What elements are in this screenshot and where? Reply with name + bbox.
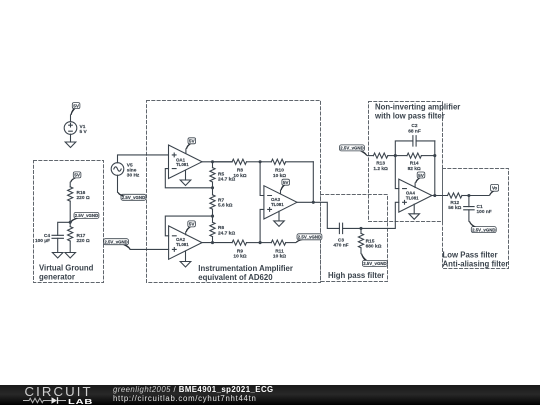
svg-text:680 kΩ: 680 kΩ xyxy=(366,244,382,250)
capacitor C2 xyxy=(408,123,435,146)
node OA3 out / R10 xyxy=(312,201,315,204)
svg-text:Vo: Vo xyxy=(492,186,498,191)
net label 2.5V_vGND (R15) xyxy=(361,254,387,267)
section box: High pass filter xyxy=(321,195,388,282)
svg-text:R6: R6 xyxy=(218,225,224,231)
svg-text:generator: generator xyxy=(39,273,75,282)
ground (C4) xyxy=(52,253,63,259)
wire OA4 output xyxy=(432,195,448,197)
wire OA1 output xyxy=(202,161,232,163)
svg-text:R7: R7 xyxy=(218,197,224,203)
net label 2.5V_vGND (C1) xyxy=(469,221,496,232)
logo wire/diode xyxy=(22,396,68,405)
svg-text:Anti-aliasing filter: Anti-aliasing filter xyxy=(443,259,509,268)
wire OA2 output xyxy=(202,242,232,244)
resistor R15 xyxy=(358,228,381,253)
capacitor C3 xyxy=(333,223,361,248)
svg-text:2.5V_vGND: 2.5V_vGND xyxy=(298,235,321,240)
wire to C2 xyxy=(395,141,413,156)
svg-text:100 µF: 100 µF xyxy=(35,238,50,244)
op-amp OA1 xyxy=(169,145,203,179)
svg-text:C3: C3 xyxy=(338,237,344,243)
net label 2.5V_vGND (OA2 +) xyxy=(104,239,131,250)
wire V1 bottom xyxy=(70,134,72,142)
voltage source V1 xyxy=(64,122,87,135)
svg-text:TL081: TL081 xyxy=(406,195,419,200)
net label 5V (OA3) xyxy=(281,179,290,194)
resistor R6 xyxy=(210,216,235,243)
node R5/R7 xyxy=(211,186,214,189)
capacitor C4 xyxy=(35,233,63,253)
svg-text:Non-inverting amplifier: Non-inverting amplifier xyxy=(375,102,460,111)
svg-text:5 V: 5 V xyxy=(80,129,88,135)
resistor R5 xyxy=(210,162,235,188)
svg-text:10 kΩ: 10 kΩ xyxy=(233,254,246,260)
svg-text:equivalent of AD620: equivalent of AD620 xyxy=(198,273,273,282)
svg-text:R10: R10 xyxy=(275,168,284,174)
net label Vo xyxy=(489,184,499,195)
wire C2 right leg xyxy=(434,141,436,196)
wire HP out to OA4 + xyxy=(361,202,399,228)
node R14/C2 leg xyxy=(433,154,436,157)
net label 5V (V1) xyxy=(71,103,80,115)
net label 5V (virtual ground) xyxy=(70,172,81,182)
svg-text:5V: 5V xyxy=(189,222,196,227)
svg-text:2.5V_vGND: 2.5V_vGND xyxy=(340,146,363,151)
svg-text:R16: R16 xyxy=(77,190,86,196)
circuitlab logo xyxy=(25,384,93,399)
op-amp OA3 xyxy=(264,186,297,219)
svg-text:24.7 kΩ: 24.7 kΩ xyxy=(218,230,235,236)
resistor R13 xyxy=(368,153,396,172)
wire V1 top xyxy=(70,115,72,122)
wire to C4 xyxy=(58,222,70,235)
section box: Instrumentation Amplifier xyxy=(147,101,321,283)
wire V5 to OA1 + xyxy=(118,155,169,163)
svg-text:TL081: TL081 xyxy=(271,202,284,207)
wire R10 down to OA3 out xyxy=(312,162,314,203)
svg-text:10 kΩ: 10 kΩ xyxy=(273,173,286,179)
op-amp OA2 xyxy=(169,226,202,259)
svg-text:R13: R13 xyxy=(376,161,385,167)
wire to Vo xyxy=(469,195,489,197)
heading: High pass filter xyxy=(328,271,384,280)
svg-text:High pass filter: High pass filter xyxy=(328,271,384,280)
resistor R8 xyxy=(213,159,261,179)
resistor R10 xyxy=(260,159,313,179)
wire vGND to OA2 + xyxy=(130,248,169,250)
node C3/R15 xyxy=(359,227,362,230)
svg-text:220 Ω: 220 Ω xyxy=(77,195,90,201)
svg-text:TL081: TL081 xyxy=(176,242,189,247)
svg-text:C4: C4 xyxy=(44,233,50,239)
svg-text:2.5V_vGND: 2.5V_vGND xyxy=(75,213,98,218)
resistor R12 xyxy=(448,193,469,211)
node R7/R6 xyxy=(211,215,214,218)
voltage source V5 sine xyxy=(111,162,140,178)
heading: Virtual Ground generator xyxy=(39,263,94,281)
svg-text:2.5V_vGND: 2.5V_vGND xyxy=(122,195,145,200)
svg-text:with low pass filter: with low pass filter xyxy=(374,112,445,121)
svg-text:R8: R8 xyxy=(237,168,243,174)
svg-text:2.5V_vGND: 2.5V_vGND xyxy=(472,227,495,232)
bottom bar xyxy=(0,385,540,406)
node OA4 out xyxy=(433,194,436,197)
heading: Non-inverting amplifier with low pass filter xyxy=(374,102,460,120)
svg-text:R9: R9 xyxy=(237,248,243,254)
svg-text:Instrumentation Amplifier: Instrumentation Amplifier xyxy=(198,264,293,273)
svg-text:68 nF: 68 nF xyxy=(408,128,421,134)
svg-text:TL081: TL081 xyxy=(176,162,189,167)
section box: Non-inverting amplifier with low pass filter xyxy=(369,102,443,222)
credit line 1 xyxy=(113,385,274,394)
ground (OA4) xyxy=(409,204,420,219)
wire OA3 minus branch xyxy=(260,162,264,196)
net label 2.5V_vGND (R11) xyxy=(296,234,322,243)
svg-text:R5: R5 xyxy=(218,171,224,177)
svg-text:5V: 5V xyxy=(283,180,290,185)
svg-text:R11: R11 xyxy=(275,248,284,254)
resistor R9 xyxy=(232,240,260,260)
heading: Instrumentation Amplifier equivalent of AD620 xyxy=(198,264,293,282)
ground (R17) xyxy=(65,253,76,259)
wire OA2 feedback to R7/R6 node xyxy=(165,216,212,236)
wire OA1 feedback xyxy=(165,169,212,188)
net label 5V (OA4) xyxy=(415,172,425,188)
resistor R14 xyxy=(395,153,435,172)
credit line 2 xyxy=(113,394,257,403)
net label 2.5V_vGND (virtual ground node) xyxy=(70,212,99,222)
svg-text:5V: 5V xyxy=(74,173,81,178)
svg-text:10 kΩ: 10 kΩ xyxy=(273,254,286,260)
svg-text:2.5V_vGND: 2.5V_vGND xyxy=(104,239,127,244)
svg-text:220 Ω: 220 Ω xyxy=(77,238,90,244)
node: R16/R17/C4 junction xyxy=(69,221,72,224)
ground (OA1) xyxy=(180,170,191,185)
op-amp OA4 xyxy=(399,179,432,212)
net label 5V (OA1) xyxy=(186,138,196,154)
ground (OA2) xyxy=(180,251,191,267)
node OA3 minus tap xyxy=(259,160,262,163)
node R13/R14/C2 xyxy=(394,154,397,157)
svg-text:1.2 kΩ: 1.2 kΩ xyxy=(373,166,388,172)
node R12/C1 xyxy=(467,194,470,197)
svg-text:470 nF: 470 nF xyxy=(333,243,348,249)
svg-text:2.5V_vGND: 2.5V_vGND xyxy=(363,261,386,266)
net label 5V (OA2) xyxy=(186,221,196,235)
svg-text:82 kΩ: 82 kΩ xyxy=(408,166,421,172)
svg-text:5.6 kΩ: 5.6 kΩ xyxy=(218,203,233,209)
svg-text:10 kΩ: 10 kΩ xyxy=(233,173,246,179)
resistor R17 xyxy=(68,222,90,252)
ground (OA3) xyxy=(274,211,285,226)
svg-text:56 kΩ: 56 kΩ xyxy=(448,205,461,211)
svg-text:C2: C2 xyxy=(411,123,417,129)
resistor R11 xyxy=(260,240,295,260)
section box: Low Pass filter Anti-aliasing filter xyxy=(443,169,509,269)
svg-text:R15: R15 xyxy=(366,238,375,244)
wire OA3 output xyxy=(297,202,339,228)
node OA3 plus tap xyxy=(259,241,262,244)
net label 2.5V_vGND (V5) xyxy=(118,192,146,200)
svg-text:5V: 5V xyxy=(418,173,425,178)
resistor R16 xyxy=(68,182,90,222)
svg-text:R12: R12 xyxy=(450,200,459,206)
ground (V1) xyxy=(65,142,76,148)
node OA1 out xyxy=(211,160,214,163)
svg-text:R17: R17 xyxy=(77,233,86,239)
wire V5 bottom xyxy=(117,175,119,192)
net label 2.5V_vGND (R13 in) xyxy=(340,145,368,156)
section box: Virtual Ground generator xyxy=(34,161,104,283)
svg-text:100 nF: 100 nF xyxy=(477,209,492,215)
capacitor C1 xyxy=(464,196,492,222)
svg-text:5V: 5V xyxy=(189,139,196,144)
resistor R7 xyxy=(210,188,233,216)
svg-text:Virtual Ground: Virtual Ground xyxy=(39,263,94,272)
svg-text:R14: R14 xyxy=(410,161,419,167)
wire OA4 minus branch xyxy=(395,156,399,189)
svg-text:C1: C1 xyxy=(477,204,483,210)
svg-text:30 Hz: 30 Hz xyxy=(127,172,140,178)
wire OA3 plus branch xyxy=(260,209,264,242)
node R6/OA2out xyxy=(211,241,214,244)
heading: Low Pass filter Anti-aliasing filter xyxy=(443,251,509,269)
svg-text:5V: 5V xyxy=(73,103,80,108)
